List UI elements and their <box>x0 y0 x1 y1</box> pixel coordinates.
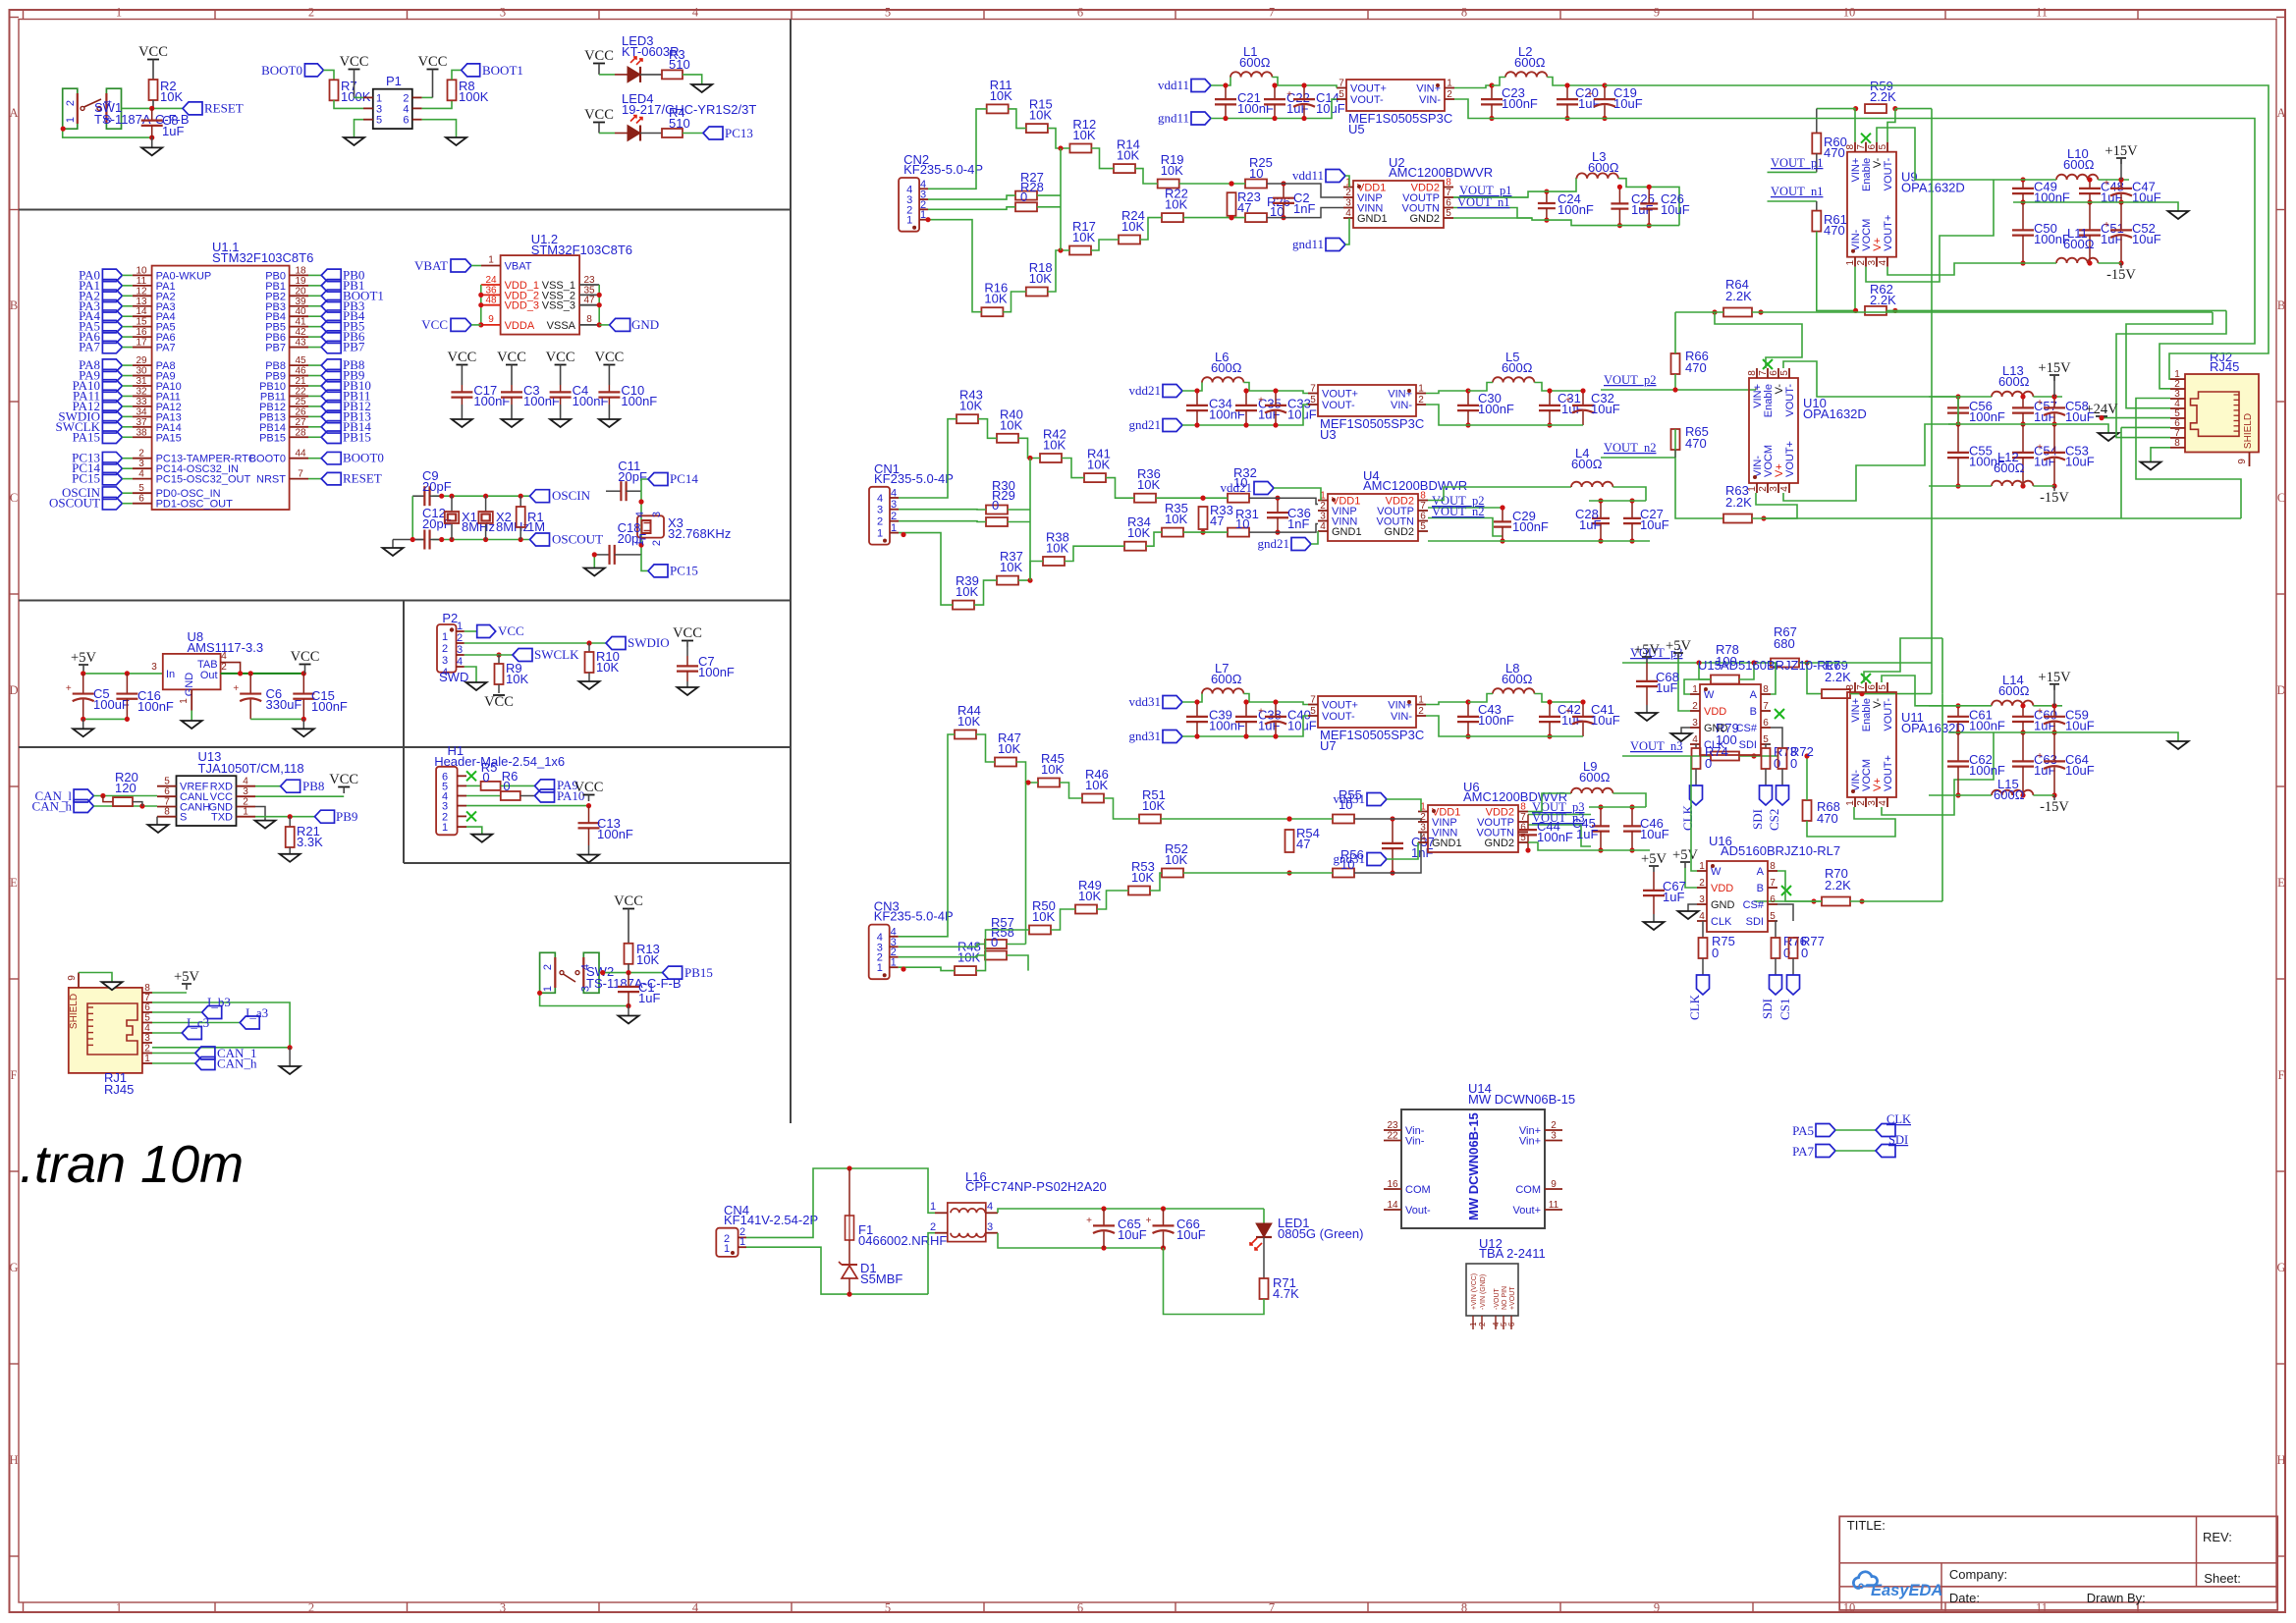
svg-text:4: 4 <box>1779 486 1790 492</box>
svg-text:2: 2 <box>1551 1120 1557 1131</box>
svg-text:VCC: VCC <box>584 107 614 123</box>
svg-text:2: 2 <box>891 511 897 522</box>
svg-text:0: 0 <box>1712 946 1719 960</box>
resistor R50 <box>1029 926 1051 935</box>
capacitor C19 <box>1604 85 1606 99</box>
net flag PA8 (U1.1 pin 29) <box>102 359 122 372</box>
svg-text:7: 7 <box>298 469 303 480</box>
resistor R59 <box>1865 104 1886 113</box>
svg-text:-VIN (GND): -VIN (GND) <box>1480 1274 1487 1310</box>
svg-text:32.768KHz: 32.768KHz <box>668 526 731 541</box>
svg-text:15: 15 <box>136 317 147 328</box>
svg-text:+: + <box>1258 396 1264 406</box>
svg-text:9: 9 <box>1654 1601 1660 1615</box>
resistor R34 <box>1124 542 1146 551</box>
ground (R21) <box>280 854 301 862</box>
capacitor C45 <box>1600 807 1602 826</box>
svg-text:470: 470 <box>1824 145 1845 160</box>
svg-text:1: 1 <box>542 986 554 992</box>
svg-text:100nF: 100nF <box>597 827 633 841</box>
svg-text:2: 2 <box>1699 878 1705 889</box>
crystal X3 <box>637 515 664 537</box>
wire H1 pin1 <box>466 827 482 835</box>
svg-text:10K: 10K <box>1137 477 1160 492</box>
resistor R48 <box>955 966 976 975</box>
svg-text:KF235-5.0-4P: KF235-5.0-4P <box>874 909 954 924</box>
capacitor C63 <box>2022 732 2024 761</box>
junction row OSCOUT <box>410 537 415 542</box>
net flag VCC (P2) <box>477 625 496 638</box>
svg-text:AMC1200BDWVR: AMC1200BDWVR <box>1389 165 1493 180</box>
capacitor C64 <box>2053 732 2055 761</box>
ic U7 MEF1S0505SP3C <box>1318 696 1416 728</box>
wire CN2 mid R28 <box>928 207 1015 210</box>
svg-text:1: 1 <box>1418 695 1424 706</box>
wire U15 VDD <box>1678 659 1690 711</box>
net label VOUT_p3 (U6 out) <box>1528 814 1591 816</box>
wire U13 pin1 TXD <box>255 816 315 818</box>
svg-text:VOUT-: VOUT- <box>1883 157 1894 190</box>
capacitor C15 <box>302 674 304 694</box>
wire rail mid <box>1948 732 2178 741</box>
svg-text:600Ω: 600Ω <box>1998 683 2030 698</box>
capacitor C50 <box>2022 202 2024 230</box>
capacitor C25 <box>1618 187 1620 203</box>
svg-text:COM: COM <box>1515 1184 1541 1196</box>
svg-text:2: 2 <box>308 1601 314 1615</box>
capacitor C20 <box>1566 85 1568 99</box>
net label VOUT_n2 (U4 out) <box>1428 518 1503 537</box>
net flag PA9 <box>535 780 555 792</box>
svg-text:10uF: 10uF <box>1591 713 1620 728</box>
no-connect X U15 pin7 <box>1775 709 1784 719</box>
svg-text:14: 14 <box>1387 1200 1398 1211</box>
resistor R73 <box>1765 744 1767 748</box>
svg-text:10uF: 10uF <box>2132 232 2161 246</box>
svg-text:VOUT_n2: VOUT_n2 <box>1604 441 1656 455</box>
wire ladder2 vertical <box>1029 459 1031 581</box>
svg-text:10K: 10K <box>1078 889 1101 903</box>
wire RJ1 pin4 I_c3 <box>152 1032 182 1034</box>
svg-text:GND1: GND1 <box>1357 213 1388 225</box>
net flag OSCOUT (U1.1 pin 6) <box>102 497 122 510</box>
svg-text:F: F <box>2278 1068 2285 1082</box>
svg-text:600Ω: 600Ω <box>1994 787 2025 802</box>
svg-text:1: 1 <box>877 528 883 540</box>
svg-text:2: 2 <box>1320 501 1326 512</box>
svg-text:7: 7 <box>1310 384 1316 395</box>
capacitor C48 <box>2089 180 2091 189</box>
capacitor C51 <box>2089 202 2091 230</box>
svg-text:PA15: PA15 <box>73 429 100 444</box>
svg-text:SWCLK: SWCLK <box>534 647 579 662</box>
svg-text:100nF: 100nF <box>1502 96 1538 111</box>
svg-text:39: 39 <box>295 297 306 307</box>
net label VOUT_n1 (U2 out) <box>1453 208 1532 219</box>
svg-text:31: 31 <box>136 376 147 387</box>
wire L16 out top rail <box>998 1209 1264 1213</box>
svg-text:+15V: +15V <box>2038 670 2071 685</box>
capacitor C6 <box>249 674 251 694</box>
LED LED4 <box>615 133 628 135</box>
resistor R36 <box>1134 494 1156 503</box>
resistor R26 <box>1245 213 1267 222</box>
net flag RESET <box>183 102 202 115</box>
svg-text:47: 47 <box>1210 514 1224 528</box>
net flag CS2 (U15) <box>1777 785 1789 805</box>
svg-text:3: 3 <box>1867 259 1878 265</box>
svg-text:Out: Out <box>200 670 218 681</box>
junction row OSCIN <box>439 494 444 499</box>
wire L16 out bottom rail <box>998 1233 1164 1248</box>
wire U8 out rail <box>221 673 304 675</box>
svg-text:2: 2 <box>1692 701 1698 712</box>
svg-text:7: 7 <box>1856 684 1867 690</box>
svg-text:TXD: TXD <box>211 812 233 824</box>
resistor R70 <box>1822 897 1850 906</box>
wire U9 pin2 VOCM <box>1866 202 1994 282</box>
svg-text:2.2K: 2.2K <box>1725 495 1752 510</box>
ic U16 AD5160BRJZ10-RL7 <box>1707 861 1768 932</box>
svg-text:2: 2 <box>442 643 448 655</box>
svg-text:4: 4 <box>1878 800 1888 806</box>
wire L16 pin2 <box>928 1233 935 1294</box>
svg-text:VSS_3: VSS_3 <box>542 300 575 312</box>
svg-text:P2: P2 <box>442 611 458 625</box>
svg-text:1uF: 1uF <box>1579 517 1601 532</box>
wire filter-U3 <box>1297 391 1308 394</box>
svg-text:10uF: 10uF <box>1316 101 1345 116</box>
svg-text:2: 2 <box>1856 259 1867 265</box>
svg-text:COM: COM <box>1405 1184 1431 1196</box>
resistor R45 <box>1038 779 1060 787</box>
svg-text:100nF: 100nF <box>523 394 560 408</box>
svg-text:6: 6 <box>1867 143 1878 149</box>
pin9 RJ2 <box>2249 453 2251 467</box>
capacitor C43 <box>1467 702 1469 717</box>
inductor L4 <box>1571 482 1613 487</box>
svg-text:1: 1 <box>1845 259 1856 265</box>
capacitor C61 <box>1957 706 1959 717</box>
capacitor C42 <box>1549 702 1551 717</box>
svg-text:PC13: PC13 <box>725 126 753 140</box>
svg-text:6: 6 <box>1520 823 1526 834</box>
net flag CS1 (U16) <box>1787 975 1800 995</box>
capacitor C24 <box>1546 191 1548 203</box>
svg-text:PC14: PC14 <box>670 471 698 486</box>
svg-text:2: 2 <box>144 1044 150 1055</box>
wire RJ1 pin6 I_b3 <box>152 1011 202 1013</box>
svg-text:25: 25 <box>295 397 306 407</box>
svg-text:600Ω: 600Ω <box>1211 672 1242 686</box>
wire R7-P1 <box>334 100 363 108</box>
svg-text:12: 12 <box>136 286 147 297</box>
wire filter-U7 <box>1297 702 1308 705</box>
svg-text:600Ω: 600Ω <box>1998 374 2030 389</box>
svg-text:19-217/GHC-YR1S2/3T: 19-217/GHC-YR1S2/3T <box>622 102 756 117</box>
svg-text:32: 32 <box>136 386 147 397</box>
net label VOUT_n3 (U6 out) <box>1528 825 1591 846</box>
svg-text:8: 8 <box>1763 684 1769 695</box>
inductor L3 <box>1577 173 1618 178</box>
capacitor C2 <box>1283 184 1285 198</box>
svg-text:3: 3 <box>651 512 663 517</box>
svg-text:600Ω: 600Ω <box>1502 360 1533 375</box>
svg-text:TBA 2-2411: TBA 2-2411 <box>1479 1246 1546 1261</box>
capacitor C46 <box>1631 807 1633 826</box>
net flag PA10 (U1.1 pin 31) <box>102 380 122 393</box>
svg-text:1: 1 <box>1418 384 1424 395</box>
wire U15 GND <box>1681 728 1690 733</box>
svg-text:OPA1632D: OPA1632D <box>1901 181 1965 195</box>
wire net ch1 gnd to RJ2 <box>1605 119 2255 389</box>
wire gnd11 rail <box>1211 118 1326 120</box>
resistor R65 <box>1671 429 1680 450</box>
EasyEDA logo <box>1853 1572 1877 1589</box>
svg-text:1: 1 <box>116 6 122 20</box>
wire U5 out <box>1454 85 1492 88</box>
svg-text:1: 1 <box>1447 79 1452 89</box>
svg-text:-15V: -15V <box>2040 490 2069 506</box>
svg-text:AD5160BRJZ10-RL7: AD5160BRJZ10-RL7 <box>1721 658 1840 673</box>
ground (H1) <box>471 835 492 842</box>
svg-text:GND1: GND1 <box>1332 526 1362 538</box>
svg-text:10uF: 10uF <box>1287 719 1317 733</box>
net flag PA1 (U1.1 pin 11) <box>102 280 122 293</box>
resistor R76 <box>1775 921 1777 938</box>
net label VOUT_p3 (U11 in) <box>1622 662 1777 664</box>
svg-text:+VIN (VCC): +VIN (VCC) <box>1471 1273 1478 1310</box>
svg-text:NRST: NRST <box>256 474 286 486</box>
svg-text:A: A <box>1750 689 1758 701</box>
net flag PC15 (U1.1 pin 4) <box>102 472 122 485</box>
svg-text:1uF: 1uF <box>1576 827 1598 841</box>
net flag PA0 (U1.1 pin 10) <box>102 269 122 282</box>
crystal X1 <box>451 496 453 512</box>
svg-text:VCC: VCC <box>418 54 448 70</box>
wire RJ1 pin8 +5V <box>152 992 187 994</box>
svg-text:VCC: VCC <box>614 893 643 909</box>
wire R70 loop <box>1754 900 1822 902</box>
svg-text:F: F <box>11 1068 18 1082</box>
svg-text:1uF: 1uF <box>162 124 184 138</box>
capacitor C59 <box>2053 706 2055 717</box>
svg-text:0: 0 <box>1020 189 1027 204</box>
net flag BOOT1 (U1.1 pin 20) <box>290 295 308 297</box>
svg-text:0: 0 <box>1790 756 1797 771</box>
pin VSSA U1.2 <box>579 324 599 326</box>
resistor R54 <box>1285 830 1294 852</box>
resistor R43 <box>957 414 978 423</box>
wire rail top <box>1929 396 1992 398</box>
svg-text:2: 2 <box>308 6 314 20</box>
resistor R47 <box>995 758 1016 767</box>
svg-text:VCC: VCC <box>546 350 575 365</box>
ground (C5) <box>73 729 93 736</box>
svg-text:6: 6 <box>1507 1322 1516 1326</box>
svg-text:6: 6 <box>1769 370 1779 376</box>
net flag PB15 <box>663 966 683 979</box>
svg-text:B: B <box>10 298 18 312</box>
svg-text:VCC: VCC <box>421 317 448 332</box>
svg-text:VOUT_n3: VOUT_n3 <box>1630 739 1682 753</box>
svg-text:VCC: VCC <box>291 649 320 665</box>
capacitor C3 <box>511 385 513 392</box>
svg-text:6: 6 <box>1446 198 1451 209</box>
svg-text:6: 6 <box>1077 6 1083 20</box>
net flag SWCLK (U1.1 pin 37) <box>102 421 122 434</box>
svg-text:10uF: 10uF <box>1640 517 1669 532</box>
net flag PB5 (U1.1 pin 41) <box>290 326 308 328</box>
net label VOUT_n3 (U16 in) <box>1622 755 1711 757</box>
wire CN4 pin1 bottom rail <box>746 1247 928 1294</box>
svg-text:VOUT_n1: VOUT_n1 <box>1771 185 1823 198</box>
svg-text:6: 6 <box>1077 1601 1083 1615</box>
svg-text:100nF: 100nF <box>473 394 510 408</box>
svg-text:2.2K: 2.2K <box>1725 289 1752 303</box>
resistor R16 <box>981 307 1003 316</box>
ground (X3) <box>584 568 605 576</box>
crystal X2 <box>485 496 487 512</box>
switch SW1 <box>63 88 78 129</box>
net flag PA5 (U1.1 pin 15) <box>102 320 122 333</box>
resistor R39 <box>953 601 974 610</box>
svg-text:47: 47 <box>1237 200 1251 215</box>
svg-text:PB15: PB15 <box>684 965 713 980</box>
wire vdd21 rail <box>1182 383 1202 392</box>
resistor R41 <box>1084 473 1106 482</box>
inductor L7 <box>1202 688 1243 693</box>
net flag CAN_h <box>74 800 93 813</box>
svg-text:OSCOUT: OSCOUT <box>552 532 603 547</box>
resistor R51 <box>1139 815 1161 824</box>
capacitor C16 <box>126 674 128 694</box>
resistor R38 <box>1043 557 1065 566</box>
svg-text:gnd11: gnd11 <box>1158 111 1189 126</box>
resistor R75 <box>1702 921 1704 938</box>
svg-text:B: B <box>2277 298 2285 312</box>
svg-text:10K: 10K <box>1142 798 1165 813</box>
net flag I_c3 <box>182 1027 201 1040</box>
svg-text:Vin-: Vin- <box>1405 1136 1425 1148</box>
pin VSS_2 U1.2 <box>579 294 599 296</box>
svg-text:A: A <box>9 106 18 120</box>
capacitor C33 <box>1275 391 1277 406</box>
capacitor C28 <box>1600 501 1602 518</box>
svg-text:11: 11 <box>1549 1200 1559 1211</box>
svg-text:KF141V-2.54-2P: KF141V-2.54-2P <box>724 1213 818 1227</box>
svg-text:11: 11 <box>2036 6 2048 20</box>
svg-text:+5V: +5V <box>1672 847 1698 863</box>
resistor R18 <box>1026 288 1048 297</box>
net flag PA2 (U1.1 pin 12) <box>102 290 122 302</box>
resistor R40 <box>997 434 1018 443</box>
svg-text:20pF: 20pF <box>618 469 647 484</box>
svg-text:10K: 10K <box>957 714 980 729</box>
svg-text:S5MBF: S5MBF <box>860 1271 902 1286</box>
wire U3 out <box>1426 391 1468 394</box>
svg-text:gnd31: gnd31 <box>1334 851 1366 866</box>
svg-text:3: 3 <box>987 1221 993 1233</box>
svg-text:17: 17 <box>136 338 147 349</box>
svg-text:+: + <box>1565 396 1571 406</box>
wire RJ1 pin3 <box>152 1047 290 1049</box>
capacitor C58 <box>2053 397 2055 407</box>
svg-text:9: 9 <box>488 314 494 325</box>
capacitor C17 <box>461 385 463 392</box>
net flag PC14 <box>641 479 648 491</box>
svg-text:Drawn By:: Drawn By: <box>2087 1591 2146 1605</box>
wire rail bottom <box>1994 262 2056 264</box>
wire U16 SDI <box>1776 920 1777 922</box>
wire rail bottom <box>1929 794 1992 796</box>
svg-text:8: 8 <box>1747 370 1758 376</box>
svg-text:100nF: 100nF <box>1209 407 1245 422</box>
svg-text:MW DCWN06B-15: MW DCWN06B-15 <box>1466 1112 1481 1220</box>
no-connect X U16 pin7 <box>1781 886 1791 895</box>
resistor R60 <box>1812 134 1821 154</box>
svg-text:SHIELD: SHIELD <box>69 994 80 1029</box>
svg-text:10uF: 10uF <box>1591 402 1620 416</box>
net flag PB1 (U1.1 pin 19) <box>290 285 308 287</box>
switch SW2 <box>540 952 556 993</box>
net flag PB15 (U1.1 pin 28) <box>290 436 308 438</box>
svg-text:10uF: 10uF <box>1176 1227 1206 1242</box>
inductor L8 <box>1493 688 1534 693</box>
net flag PA9 (U1.1 pin 30) <box>102 369 122 382</box>
wire R67-U9col <box>1807 662 1932 664</box>
svg-text:100nF: 100nF <box>1209 719 1245 733</box>
svg-text:6: 6 <box>1763 718 1769 729</box>
ground (C10) <box>599 419 620 427</box>
svg-text:20: 20 <box>295 286 306 297</box>
svg-text:1: 1 <box>1692 684 1698 695</box>
svg-text:+5V: +5V <box>1641 851 1667 867</box>
svg-text:11: 11 <box>2036 1601 2048 1615</box>
svg-text:100nF: 100nF <box>311 699 348 714</box>
resistor R31 <box>1228 528 1249 537</box>
svg-text:10uF: 10uF <box>2065 455 2095 469</box>
resistor R9 <box>498 655 500 664</box>
wire U2 VOUTP to L3 <box>1453 179 1577 197</box>
wire LED3-R3 <box>640 74 662 76</box>
svg-text:0: 0 <box>503 779 510 793</box>
svg-text:VBAT: VBAT <box>505 261 532 273</box>
svg-text:PB15: PB15 <box>259 432 286 444</box>
wire net U9 out col <box>1931 109 1933 663</box>
connector RJ1 RJ45 <box>69 988 142 1073</box>
svg-text:1: 1 <box>920 209 926 221</box>
wire U15 CS#/SDI <box>1771 728 1782 748</box>
resistor R71 <box>1263 1237 1265 1278</box>
net flag PB9 <box>315 810 335 823</box>
ground (rail filter) <box>2099 433 2119 441</box>
wire VOUT_n2 <box>1601 457 1675 459</box>
svg-text:600Ω: 600Ω <box>1211 360 1242 375</box>
svg-text:10uF: 10uF <box>2065 763 2095 778</box>
net flag PB0 (U1.1 pin 18) <box>290 274 308 276</box>
svg-text:0466002.NRHF: 0466002.NRHF <box>858 1233 947 1248</box>
svg-text:PA5: PA5 <box>1792 1123 1814 1138</box>
ground (crystal) <box>392 540 394 549</box>
svg-text:3: 3 <box>891 499 897 511</box>
svg-text:5: 5 <box>1878 684 1888 690</box>
svg-text:7: 7 <box>1520 812 1526 823</box>
resistor R12 <box>1069 144 1091 153</box>
svg-text:VCC: VCC <box>673 625 702 641</box>
inductor L15 <box>1992 790 2033 795</box>
section divider lines <box>19 209 791 211</box>
